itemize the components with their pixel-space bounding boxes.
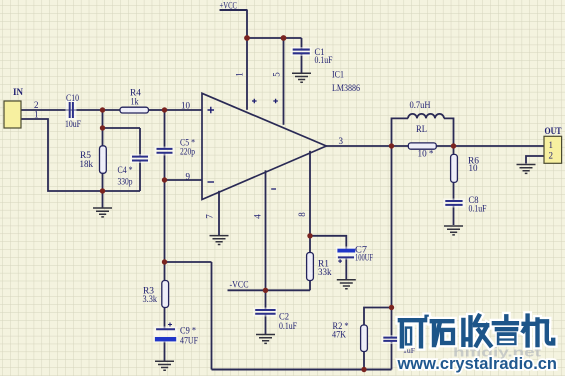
svg-text:100UF: 100UF bbox=[355, 253, 373, 263]
svg-text:8: 8 bbox=[297, 212, 307, 217]
svg-text:220p: 220p bbox=[180, 146, 195, 156]
watermark url www.crystalradio.cn bbox=[397, 354, 557, 373]
pin 10 label bbox=[181, 100, 191, 110]
wire pin 5 drop bbox=[283, 38, 285, 125]
svg-text:1k: 1k bbox=[131, 96, 139, 106]
ground pin 7 bbox=[210, 236, 229, 245]
wire OUT pin 2 to ground bbox=[526, 156, 544, 164]
svg-text:9: 9 bbox=[186, 171, 191, 181]
pin 9 label bbox=[186, 171, 191, 181]
wire pin 8 drop bbox=[309, 151, 311, 236]
capacitor C9 47UF electrolytic bbox=[154, 323, 199, 346]
svg-text:330p: 330p bbox=[118, 177, 133, 187]
capacitor C4 bbox=[118, 154, 151, 187]
wire return rail to C4 bbox=[103, 190, 141, 192]
svg-text:10uF: 10uF bbox=[65, 119, 81, 129]
wire inductor branch bbox=[392, 118, 409, 146]
svg-text:www.crystalradio.cn: www.crystalradio.cn bbox=[397, 354, 557, 373]
wire -VCC rail bbox=[228, 289, 311, 291]
svg-text:33k: 33k bbox=[318, 267, 332, 277]
ground OUT pin 2 bbox=[517, 165, 536, 174]
wire pin8 node to C7 bbox=[310, 236, 346, 249]
wire C2 to ground bbox=[265, 314, 267, 334]
ground C8 bbox=[444, 226, 463, 235]
pin 1 label rotated bbox=[235, 72, 245, 77]
svg-text:7: 7 bbox=[205, 214, 215, 219]
svg-text:3.3k: 3.3k bbox=[143, 294, 158, 304]
wire feedback vertical drop bbox=[211, 262, 213, 370]
minus mark pin 4 bbox=[271, 188, 276, 190]
svg-text:OUT: OUT bbox=[545, 127, 563, 137]
wire C7 to ground bbox=[345, 258, 347, 280]
pin 7 label rotated bbox=[205, 214, 215, 219]
ground C9 bbox=[155, 361, 174, 370]
wire R4 to pin10 node bbox=[149, 109, 165, 111]
power bar +VCC bbox=[220, 1, 248, 11]
capacitor C8 bbox=[443, 195, 487, 214]
svg-text:2: 2 bbox=[34, 100, 39, 110]
plus mark pin 5 bbox=[273, 99, 278, 104]
wire C2 top lead bbox=[265, 290, 267, 310]
pin 4 label rotated bbox=[253, 214, 263, 219]
svg-text:0.1uF: 0.1uF bbox=[315, 55, 333, 65]
net label -VCC bbox=[230, 279, 249, 289]
svg-text:2: 2 bbox=[549, 150, 554, 160]
svg-text:18k: 18k bbox=[80, 159, 94, 169]
inductor label 0.7uH bbox=[410, 100, 431, 110]
wire C10 node to R4 bbox=[103, 109, 121, 111]
watermark char shi bbox=[432, 321, 453, 345]
svg-text:-VCC: -VCC bbox=[230, 279, 249, 289]
pin 8 label rotated bbox=[297, 212, 307, 217]
resistor RL bbox=[408, 124, 436, 158]
inductor L1 0.7uH coil bbox=[408, 114, 444, 119]
resistor R1 bbox=[307, 253, 332, 281]
power +VCC drop wire bbox=[246, 10, 248, 38]
wire C9 to ground bbox=[164, 342, 166, 362]
capacitor C1 bbox=[291, 47, 333, 65]
wire C4 bottom lead bbox=[139, 161, 141, 192]
plus mark pin 1 bbox=[252, 99, 257, 104]
wire inductor branch right bbox=[444, 118, 454, 146]
resistor R3 bbox=[143, 281, 169, 308]
connector J2 OUT bbox=[544, 127, 562, 163]
wire R1 top lead bbox=[309, 236, 311, 253]
wire pin 10 into op-amp bbox=[165, 109, 203, 111]
svg-text:5: 5 bbox=[272, 72, 282, 77]
watermark char yin bbox=[494, 316, 519, 346]
wire C4 top lead bbox=[139, 128, 141, 157]
capacitor feedback small bbox=[382, 335, 416, 355]
svg-text:C2: C2 bbox=[279, 311, 289, 321]
svg-text:47UF: 47UF bbox=[180, 335, 198, 345]
wire node down C10 to C4 branch bbox=[102, 109, 104, 128]
wire R3 to C9 bbox=[164, 308, 166, 330]
capacitor C2 bbox=[253, 308, 297, 332]
watermark char ji bbox=[523, 316, 553, 346]
wire R2 bottom lead bbox=[363, 352, 365, 370]
wire R6 top lead bbox=[453, 146, 455, 155]
svg-text:C4 *: C4 * bbox=[118, 165, 133, 175]
ground C7 bbox=[337, 280, 356, 289]
wire R3 top lead bbox=[164, 262, 166, 281]
watermark char kuang bbox=[400, 315, 429, 347]
capacitor C10 bbox=[65, 93, 81, 129]
wire pin1 of IN return bbox=[21, 119, 103, 191]
resistor R2 bbox=[332, 321, 367, 352]
wire R2 top lead to feedback node bbox=[364, 308, 392, 326]
svg-text:C9 *: C9 * bbox=[180, 325, 196, 335]
svg-text:IN: IN bbox=[13, 88, 23, 98]
wire feedback horizontal at node bbox=[165, 261, 212, 263]
pin 5 label rotated bbox=[272, 72, 282, 77]
wire feedback node down to R3 node bbox=[164, 180, 166, 262]
svg-text:1: 1 bbox=[34, 110, 39, 120]
wire C5 bottom lead bbox=[164, 153, 166, 180]
ground C2 bbox=[256, 335, 275, 344]
wire R1 bottom lead bbox=[309, 281, 311, 291]
resistor R5 bbox=[80, 146, 107, 174]
wire pin 7 to ground bbox=[218, 191, 220, 236]
op-amp U1 LM3886 triangle bbox=[202, 69, 360, 199]
svg-text:1: 1 bbox=[235, 72, 245, 77]
svg-text:IC1: IC1 bbox=[332, 69, 344, 79]
ground input network bbox=[93, 208, 112, 217]
svg-text:C10: C10 bbox=[66, 93, 79, 103]
pin 3 label bbox=[339, 136, 344, 146]
svg-text:0.1uF: 0.1uF bbox=[279, 321, 297, 331]
wire pin2 of IN to C10 node bbox=[21, 109, 103, 111]
svg-text:3: 3 bbox=[339, 136, 344, 146]
svg-text:LM3886: LM3886 bbox=[332, 83, 360, 93]
wire R5 top lead bbox=[102, 128, 104, 146]
svg-text:1: 1 bbox=[549, 140, 554, 150]
svg-text:0.1uF: 0.1uF bbox=[469, 203, 487, 213]
connector J1 IN bbox=[4, 88, 39, 128]
capacitor C7 100UF electrolytic bbox=[336, 244, 373, 263]
capacitor C5 bbox=[155, 137, 196, 156]
ground C1 bbox=[292, 73, 311, 82]
svg-text:10: 10 bbox=[469, 163, 478, 173]
wire bottom feedback rail bbox=[212, 369, 392, 371]
wire output line pin 3 to OUT bbox=[326, 145, 544, 147]
svg-text:4: 4 bbox=[253, 214, 263, 219]
wire ground lead of input network bbox=[102, 191, 104, 208]
wire VCC rail bbox=[247, 37, 302, 39]
wire branch to C4 top bbox=[103, 127, 141, 129]
watermark ghost hifidiy.net bbox=[453, 346, 542, 360]
svg-text:RL: RL bbox=[416, 124, 427, 134]
resistor R4 bbox=[120, 88, 149, 114]
wire pin 9 into op-amp bbox=[165, 179, 203, 181]
svg-text:10: 10 bbox=[181, 100, 191, 110]
svg-text:0.7uH: 0.7uH bbox=[410, 100, 431, 110]
wire R5 bottom lead bbox=[102, 173, 104, 191]
wire feedback below cap to rail bbox=[391, 342, 393, 370]
wire C8 to ground bbox=[453, 205, 455, 225]
wire pin 4 to -VCC bbox=[265, 170, 267, 290]
wire C5 top lead bbox=[164, 110, 166, 149]
svg-text:10 *: 10 * bbox=[418, 148, 434, 158]
resistor R6 bbox=[451, 154, 480, 182]
svg-text:47K: 47K bbox=[332, 330, 346, 340]
wire C1 top lead bbox=[301, 38, 303, 50]
wire R6 to C8 bbox=[453, 183, 455, 202]
wire C1 to ground bbox=[301, 54, 303, 74]
wire feedback from output node down bbox=[391, 146, 393, 337]
wire pin 1 drop bbox=[246, 38, 248, 110]
svg-text:+VCC: +VCC bbox=[220, 1, 238, 11]
watermark char shou bbox=[463, 316, 490, 346]
